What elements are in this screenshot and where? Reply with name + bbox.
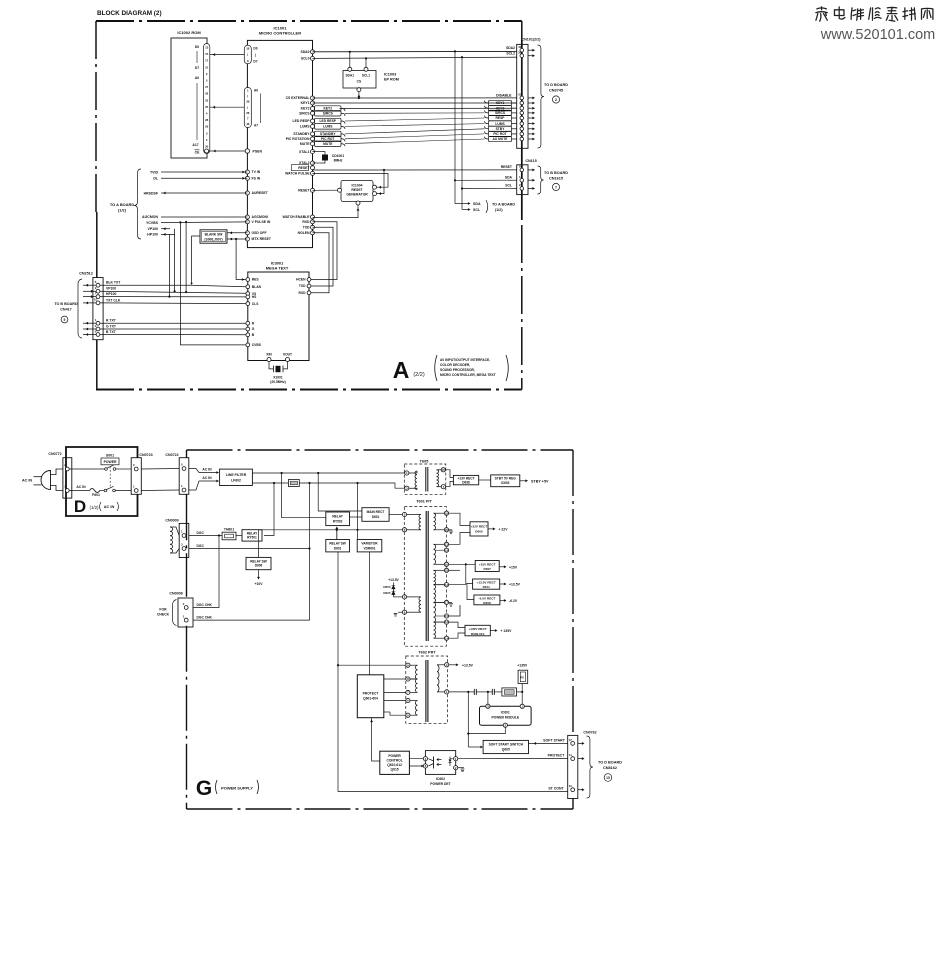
svg-text:AC IN: AC IN bbox=[22, 479, 32, 483]
svg-text:13: 13 bbox=[205, 46, 209, 50]
svg-text:28: 28 bbox=[205, 118, 209, 122]
tag KEY1 at CN101 bbox=[489, 100, 512, 105]
svg-text:XTAL1: XTAL1 bbox=[299, 150, 310, 154]
tag STBY at CN101 bbox=[489, 126, 512, 131]
svg-text:AC IN: AC IN bbox=[202, 468, 212, 472]
T601 pin 15 bbox=[444, 614, 448, 618]
svg-text:CONTROL: CONTROL bbox=[386, 759, 402, 763]
svg-text:CS EXTERNAL: CS EXTERNAL bbox=[286, 96, 310, 100]
svg-text:AGCMONI: AGCMONI bbox=[252, 215, 268, 219]
series capacitor 1 bbox=[468, 691, 474, 693]
pin 1 CN0008 bbox=[184, 618, 188, 622]
tag KEY2 at CN101 bbox=[489, 106, 512, 111]
FOR CHECK bracket bbox=[173, 600, 177, 626]
SCL arrow to A board bbox=[462, 209, 469, 211]
LINE FILTER LF602 box bbox=[220, 469, 253, 485]
svg-text:15: 15 bbox=[205, 52, 209, 56]
svg-text:TO A BOARD: TO A BOARD bbox=[492, 203, 515, 207]
transformer T601 dash body bbox=[404, 507, 446, 647]
svg-text:POWER SUPPLY: POWER SUPPLY bbox=[221, 786, 253, 791]
svg-text:D608: D608 bbox=[483, 601, 491, 605]
svg-text:WATCH PULSE: WATCH PULSE bbox=[285, 172, 310, 176]
RESET loop wire to IC1004 pin8 bbox=[377, 170, 385, 194]
svg-text:IC1003: IC1003 bbox=[384, 73, 396, 77]
svg-text:COLOR DECODER,: COLOR DECODER, bbox=[440, 363, 470, 367]
svg-text:21: 21 bbox=[518, 93, 522, 97]
pin 12 on CN0762 bbox=[571, 788, 575, 792]
svg-text:FS IN: FS IN bbox=[252, 177, 261, 181]
AC plug symbol bbox=[41, 471, 50, 490]
svg-text:Q610-612: Q610-612 bbox=[387, 763, 402, 767]
svg-text:V PULSE IN: V PULSE IN bbox=[252, 220, 271, 224]
svg-text:CN2512: CN2512 bbox=[79, 272, 93, 276]
RESET long wire to CN115 bbox=[313, 169, 517, 171]
degauss coil symbol bbox=[170, 527, 173, 553]
pin IC1004 bottom bbox=[356, 201, 360, 205]
wire VP100 drop bbox=[174, 229, 176, 292]
wire SCL vertical drop bbox=[461, 57, 463, 209]
varistor VDR601 box bbox=[357, 540, 382, 552]
AC wire upper to T605 bbox=[252, 472, 404, 474]
svg-text:-6.2V: -6.2V bbox=[509, 599, 518, 603]
svg-text:+15V RECT: +15V RECT bbox=[479, 562, 496, 566]
pin AURESET on IC1001 bbox=[245, 191, 249, 195]
svg-text:D650: D650 bbox=[383, 585, 391, 589]
svg-text:CN3745: CN3745 bbox=[549, 89, 563, 93]
svg-text:CS: CS bbox=[357, 80, 361, 84]
svg-text:+10V: +10V bbox=[254, 582, 263, 586]
wire CN0009 pin1 to TH601 bbox=[189, 535, 222, 537]
T602 windings left bbox=[410, 664, 418, 666]
T601 pin 17 bbox=[444, 600, 448, 604]
svg-text:A0: A0 bbox=[254, 89, 258, 93]
pin XTAL1 on IC1001 right bbox=[311, 150, 315, 154]
T602 pin 6 bbox=[406, 698, 410, 702]
AC wire lower continue bbox=[299, 483, 404, 488]
pin SDA0 on IC1001 right bbox=[311, 50, 315, 54]
wire check tap pin1 and degauss feed bbox=[193, 483, 310, 620]
pin MUTE on IC1001 right bbox=[311, 142, 315, 146]
BLANK SW box bbox=[200, 230, 227, 243]
pin TV IN on IC1001 bbox=[245, 170, 249, 174]
SDA0 bus wire bbox=[313, 50, 517, 52]
svg-text:VDR601: VDR601 bbox=[363, 546, 375, 550]
WATCH PULSE loop wire bbox=[313, 173, 389, 187]
pin V PULSE IN on IC1001 bbox=[245, 220, 249, 224]
svg-text:AURESET: AURESET bbox=[252, 191, 269, 195]
svg-text:TV IN: TV IN bbox=[252, 170, 261, 174]
IC602 pin 2 bbox=[454, 766, 458, 770]
svg-text:IC601: IC601 bbox=[501, 711, 510, 715]
svg-text:D: D bbox=[74, 497, 86, 516]
pin TXD on IC3001 right bbox=[307, 284, 311, 288]
pin SIRCS on CN101 bbox=[520, 111, 524, 115]
svg-text:RES: RES bbox=[252, 278, 260, 282]
svg-text:D0: D0 bbox=[253, 47, 257, 51]
svg-text:+13.5V: +13.5V bbox=[509, 583, 521, 587]
T602 pin 7 bbox=[406, 690, 410, 694]
circled 5 bbox=[61, 316, 68, 323]
T601 pin 13 bbox=[444, 583, 448, 587]
T601 primary winding top bbox=[407, 514, 421, 516]
svg-text:D601: D601 bbox=[334, 546, 342, 550]
wire VP100 row to megatext VS bbox=[100, 291, 246, 293]
wire IC602 pin2 ground bbox=[458, 767, 464, 769]
pins IC1004 right bbox=[373, 185, 377, 189]
crystal X1001 bbox=[269, 362, 274, 369]
T601 pin 18 bbox=[444, 511, 448, 515]
svg-text:PIC ROTATION: PIC ROTATION bbox=[286, 137, 310, 141]
T601 pin 22 bbox=[444, 568, 448, 572]
wire CN0723 to CN0722 top bbox=[141, 468, 179, 471]
PROTECT Q601-604 box bbox=[357, 675, 384, 718]
pin SCL0 on IC1001 right bbox=[311, 56, 315, 60]
svg-text:(20.5MHz): (20.5MHz) bbox=[270, 380, 285, 384]
svg-text:+13.5V: +13.5V bbox=[388, 578, 399, 582]
svg-text:GENERATOR: GENERATOR bbox=[346, 192, 368, 196]
T601 pin 21 bbox=[444, 542, 448, 546]
pin 1 CN0009 bbox=[182, 534, 186, 538]
relay SW D606 box bbox=[246, 557, 271, 569]
tag MUTE at micro bbox=[315, 141, 342, 146]
svg-text:CN0723: CN0723 bbox=[139, 453, 152, 457]
wire CN0772 to fuse bbox=[69, 490, 89, 492]
svg-text:+13.5V: +13.5V bbox=[462, 663, 474, 667]
connector CN0009 body bbox=[179, 523, 189, 557]
pin DISABLE on CN101 bbox=[520, 96, 524, 100]
T605 secondary winding bbox=[437, 469, 442, 471]
wire pin16 junction to D611 bbox=[465, 563, 467, 565]
svg-text:29: 29 bbox=[205, 125, 209, 129]
watermark chinese calligraphy 家电维修资料网 bbox=[816, 7, 827, 21]
tag LUMS at micro bbox=[315, 124, 342, 129]
switch link dashed bbox=[109, 467, 111, 488]
svg-text:A7: A7 bbox=[254, 124, 258, 128]
pin PIC ROTATION on IC1001 right bbox=[311, 137, 315, 141]
ground at T601 pin 20 bbox=[449, 529, 452, 531]
svg-text:KEY1: KEY1 bbox=[496, 101, 505, 105]
pin RXD on IC3001 right bbox=[307, 291, 311, 295]
pin SCL2 on CN101 bbox=[520, 54, 524, 58]
pin PSEN bbox=[245, 149, 249, 153]
pin 2 CN0008 bbox=[184, 606, 188, 610]
svg-text:CVBS: CVBS bbox=[252, 343, 262, 347]
svg-text:Q601-604: Q601-604 bbox=[363, 697, 378, 701]
svg-text:X1001: X1001 bbox=[273, 376, 283, 380]
T601 pin 19 bbox=[444, 548, 448, 552]
wire drop degauss return bbox=[264, 483, 274, 536]
pin BLAN on IC3001 bbox=[246, 285, 250, 289]
fuse PS601 vertical bbox=[521, 684, 523, 692]
svg-text:DGC CHK: DGC CHK bbox=[197, 615, 213, 619]
svg-text:SCL1: SCL1 bbox=[362, 74, 370, 78]
AC IN arrows to line filter bbox=[189, 469, 218, 473]
IC1001 micro controller body bbox=[247, 40, 312, 247]
fuse F601 bbox=[90, 489, 100, 493]
T601 pin 14 bbox=[444, 636, 448, 640]
svg-text:AU MUTE: AU MUTE bbox=[492, 137, 508, 141]
wire CN0723 to CN0722 bottom bbox=[141, 489, 179, 492]
wire drop to main rect bbox=[318, 473, 362, 511]
circled 2 bbox=[552, 96, 559, 103]
svg-text:SDA2: SDA2 bbox=[506, 46, 515, 50]
svg-text:15: 15 bbox=[606, 776, 610, 780]
svg-text:RY502: RY502 bbox=[333, 519, 343, 523]
svg-text:RELAY: RELAY bbox=[332, 514, 343, 518]
svg-text:D7: D7 bbox=[195, 66, 199, 70]
pin LUMS on IC1001 right bbox=[311, 124, 315, 128]
svg-text:MICRO CONTROLLER, MEGA TEXT: MICRO CONTROLLER, MEGA TEXT bbox=[440, 373, 496, 377]
svg-text:MAIN RECT: MAIN RECT bbox=[367, 510, 385, 514]
svg-text:DISABLE: DISABLE bbox=[496, 93, 512, 97]
svg-text:SIRCS: SIRCS bbox=[323, 112, 334, 116]
AC plug prongs bbox=[34, 476, 42, 478]
svg-text:HP100: HP100 bbox=[106, 292, 116, 296]
CS EXTERNAL / DISABLE wire bbox=[313, 97, 517, 99]
svg-text:SDA: SDA bbox=[473, 202, 481, 206]
pin AGCMONI on IC1001 bbox=[245, 215, 249, 219]
svg-text:A17: A17 bbox=[192, 143, 198, 147]
svg-text:LUMS: LUMS bbox=[323, 125, 333, 129]
boxed RESET pin label bbox=[292, 165, 309, 171]
pin RESET on IC1001 right bbox=[311, 166, 315, 170]
T602 pin4 +13.5V output bbox=[449, 664, 457, 666]
+13.5V RECT D611 box bbox=[449, 569, 460, 571]
pin 1 CN0723 bbox=[134, 489, 138, 493]
transformer T605 dash body bbox=[404, 464, 446, 494]
tag SIRCS at micro bbox=[315, 111, 342, 116]
svg-text:BLAN: BLAN bbox=[252, 285, 262, 289]
CN2512 bracket bbox=[78, 279, 82, 338]
pin RESET on IC1001 right bbox=[311, 188, 315, 192]
wire BLK TXT row to megatext BLAN bbox=[100, 284, 192, 286]
svg-text:RELAY SW: RELAY SW bbox=[329, 542, 345, 546]
svg-text:DGC: DGC bbox=[197, 544, 205, 548]
svg-text:(1/2): (1/2) bbox=[118, 208, 127, 213]
relay RY501 box bbox=[236, 535, 242, 537]
svg-text:RESP: RESP bbox=[496, 116, 506, 120]
wire +135V node to IC601 pin1 bbox=[521, 692, 523, 704]
pin XTAL2 on IC1001 right bbox=[311, 161, 315, 165]
connector CN115 body bbox=[517, 165, 528, 195]
svg-text:G TXT: G TXT bbox=[106, 324, 117, 328]
IC602 phototransistor symbol bbox=[433, 757, 435, 769]
pin 2 CN0772 bbox=[65, 467, 69, 471]
svg-text:MUTE: MUTE bbox=[323, 142, 333, 146]
svg-text:AC IN: AC IN bbox=[76, 485, 86, 489]
pin 5 CN0722 bbox=[182, 467, 186, 471]
svg-text:VP100: VP100 bbox=[106, 287, 116, 291]
section A dash-dot border top bbox=[96, 20, 522, 22]
circled 7 bbox=[552, 183, 559, 190]
pin CE on ROM bbox=[205, 149, 209, 153]
T601 mid-tap stubs pins 19 and 15 bbox=[436, 549, 445, 551]
svg-text:POWER DET: POWER DET bbox=[430, 782, 451, 786]
TO A BOARD curly bracket bbox=[134, 169, 141, 239]
pin WATCH PULSE on IC1001 right bbox=[311, 171, 315, 175]
pin KEY1 on CN101 bbox=[520, 101, 524, 105]
wire TXT CLK row bbox=[100, 302, 246, 305]
+13V RECT D636 box bbox=[445, 470, 453, 478]
connector CN0772 body bbox=[63, 458, 72, 498]
pin PIC ROT on CN101 bbox=[520, 132, 524, 136]
PROTECT wire to CN0762 bbox=[458, 758, 568, 760]
pin SIRCS on IC1001 right bbox=[311, 111, 315, 115]
svg-text:SDA0: SDA0 bbox=[300, 50, 309, 54]
+15V RECT D607 box bbox=[449, 563, 476, 565]
wire BLANK SW to OSD OFF bbox=[227, 232, 247, 234]
transformer T602 dash body bbox=[406, 656, 448, 723]
svg-text:CN0009: CN0009 bbox=[165, 519, 178, 523]
svg-text:Q605: Q605 bbox=[502, 748, 510, 752]
svg-text:TO B BOARD: TO B BOARD bbox=[54, 302, 78, 306]
wire varistor top to AC line bbox=[357, 483, 359, 540]
svg-text:25: 25 bbox=[205, 105, 209, 109]
relay SW D606 +10V output bbox=[258, 570, 260, 578]
IC602 pin 3 bbox=[423, 764, 427, 768]
ground at T601 pin 17 bbox=[449, 601, 452, 603]
wire HP100 row to megatext HS bbox=[100, 296, 246, 298]
pin RXD on IC1001 right bbox=[311, 220, 315, 224]
svg-text:2: 2 bbox=[555, 98, 557, 102]
svg-text:EP ROM: EP ROM bbox=[384, 78, 399, 82]
IC602 LED symbol bbox=[449, 760, 452, 763]
svg-text:(2/2): (2/2) bbox=[413, 372, 424, 378]
wire relay SW D601 top bbox=[336, 530, 338, 540]
section G border bottom bbox=[187, 808, 574, 810]
svg-text:TXD: TXD bbox=[303, 226, 310, 230]
plug prong bottom wire bbox=[51, 486, 63, 491]
svg-text:D606: D606 bbox=[255, 564, 263, 568]
IC602 pin 1 bbox=[454, 757, 458, 761]
SOFT START SWITCH Q605 box bbox=[468, 746, 481, 748]
svg-text:TVID: TVID bbox=[150, 170, 158, 174]
svg-text:SCL2: SCL2 bbox=[506, 52, 515, 56]
section G border right lower bbox=[572, 799, 574, 810]
wire IC601 pin3 up bbox=[487, 692, 489, 704]
svg-text:CN8162: CN8162 bbox=[603, 766, 617, 770]
svg-text:STBY +5V: STBY +5V bbox=[531, 479, 549, 483]
svg-text:PIC ROT: PIC ROT bbox=[493, 132, 506, 136]
T601 pin 6 bbox=[402, 610, 406, 614]
T602 pin 1 bbox=[445, 690, 449, 694]
pin RESET on CN115 bbox=[520, 168, 524, 172]
IC1002 ROM body bbox=[171, 38, 207, 158]
svg-text:RXD: RXD bbox=[299, 291, 307, 295]
svg-text:BLK TXT: BLK TXT bbox=[106, 281, 121, 285]
svg-text:MTX RESET: MTX RESET bbox=[252, 237, 272, 241]
svg-text:PROTECT: PROTECT bbox=[548, 753, 566, 757]
svg-text:KEY1: KEY1 bbox=[301, 101, 310, 105]
pin 3 G TXT on CN2512 bbox=[96, 327, 100, 331]
svg-text:Q615: Q615 bbox=[391, 768, 399, 772]
main rect D601 box bbox=[362, 508, 389, 522]
pin 2 CN0723 bbox=[134, 467, 138, 471]
svg-text:TXT CLK: TXT CLK bbox=[106, 298, 121, 302]
IC602 pin 4 bbox=[423, 757, 427, 761]
wire to +135V node bbox=[517, 691, 523, 693]
ST CONT wire bbox=[338, 791, 568, 793]
section G border top bbox=[187, 449, 574, 451]
svg-text:AV INPUT/OUTPUT INTERFACE,: AV INPUT/OUTPUT INTERFACE, bbox=[440, 358, 490, 362]
wire HP100 drop bbox=[168, 234, 170, 296]
CN0762 brace bbox=[587, 736, 593, 798]
IC1002 ROM pin strip bbox=[204, 44, 210, 154]
svg-text:+135V RECT: +135V RECT bbox=[468, 627, 486, 631]
T605 pin 3 bbox=[405, 486, 409, 490]
svg-text:CE: CE bbox=[195, 151, 200, 155]
circled 15 bbox=[604, 774, 612, 782]
T605 pin 15 bbox=[441, 468, 445, 472]
choke L601 bbox=[288, 480, 299, 487]
svg-text:LED RESP: LED RESP bbox=[320, 119, 337, 123]
svg-text:LINE FILTER: LINE FILTER bbox=[226, 473, 247, 477]
STBY 5V REG IC603 box bbox=[479, 479, 491, 481]
section A dash-dot border bottom bbox=[96, 389, 522, 391]
svg-text:PROTECT: PROTECT bbox=[363, 692, 379, 696]
svg-text:D605: D605 bbox=[475, 529, 483, 533]
pin STBY on CN101 bbox=[520, 127, 524, 131]
svg-text:IC1002 ROM: IC1002 ROM bbox=[177, 30, 201, 35]
svg-text:CLS: CLS bbox=[252, 302, 259, 306]
IC601 pin 2 bbox=[503, 723, 507, 727]
pin LED RESP on IC1001 right bbox=[311, 119, 315, 123]
wire SCL1 drop bbox=[365, 58, 367, 67]
svg-text:CN0008: CN0008 bbox=[169, 592, 182, 596]
pin TXD on IC1001 right bbox=[311, 225, 315, 229]
svg-text:7: 7 bbox=[555, 186, 557, 190]
T601 secondary windings bbox=[434, 512, 445, 514]
wire micro NGLEN to megatext bbox=[311, 233, 330, 293]
svg-text:BLOCK DIAGRAM (2): BLOCK DIAGRAM (2) bbox=[97, 10, 162, 17]
svg-text:27: 27 bbox=[205, 85, 209, 89]
section G border left lower bbox=[186, 626, 188, 809]
svg-text:POWER: POWER bbox=[388, 754, 401, 758]
pin G on IC3001 bbox=[246, 327, 250, 331]
svg-text:NGLEN: NGLEN bbox=[298, 231, 310, 235]
connector CN0723 body bbox=[131, 458, 141, 495]
svg-text:D636: D636 bbox=[462, 480, 470, 484]
svg-text:5: 5 bbox=[64, 318, 66, 322]
pin CVBS on IC3001 bbox=[246, 343, 250, 347]
pin 11 on CN0762 bbox=[571, 757, 575, 761]
svg-text:CN0722: CN0722 bbox=[165, 453, 178, 457]
T602 winding right bbox=[437, 664, 445, 666]
tag AU MUTE at CN101 bbox=[489, 136, 512, 141]
svg-text:8MHz: 8MHz bbox=[334, 159, 343, 163]
wire B TXT row bbox=[100, 334, 246, 336]
svg-text:(1/2): (1/2) bbox=[89, 505, 99, 510]
wire SCL to CN115 bbox=[462, 187, 517, 189]
T602 core bbox=[425, 660, 427, 722]
svg-text:39: 39 bbox=[518, 50, 522, 54]
pin SDA1 bbox=[348, 67, 352, 71]
svg-text:10: 10 bbox=[94, 298, 98, 302]
svg-text:FOR: FOR bbox=[159, 608, 167, 612]
relay RY502 box bbox=[326, 512, 350, 526]
svg-text:D611: D611 bbox=[483, 585, 491, 589]
wires protect to T602 pins bbox=[384, 678, 406, 680]
svg-text:+135V: +135V bbox=[517, 664, 528, 668]
IC601 POWER MODULE box bbox=[480, 706, 532, 725]
svg-text:DGC CHK: DGC CHK bbox=[197, 603, 213, 607]
wire pin15 row bbox=[449, 605, 460, 616]
svg-text:IC603: IC603 bbox=[501, 481, 510, 485]
wire YCVBS drop to CVBS bbox=[179, 222, 181, 345]
svg-text:AC IN: AC IN bbox=[104, 504, 115, 509]
switch contact top bbox=[105, 468, 108, 471]
svg-text:CD1001: CD1001 bbox=[332, 154, 345, 158]
